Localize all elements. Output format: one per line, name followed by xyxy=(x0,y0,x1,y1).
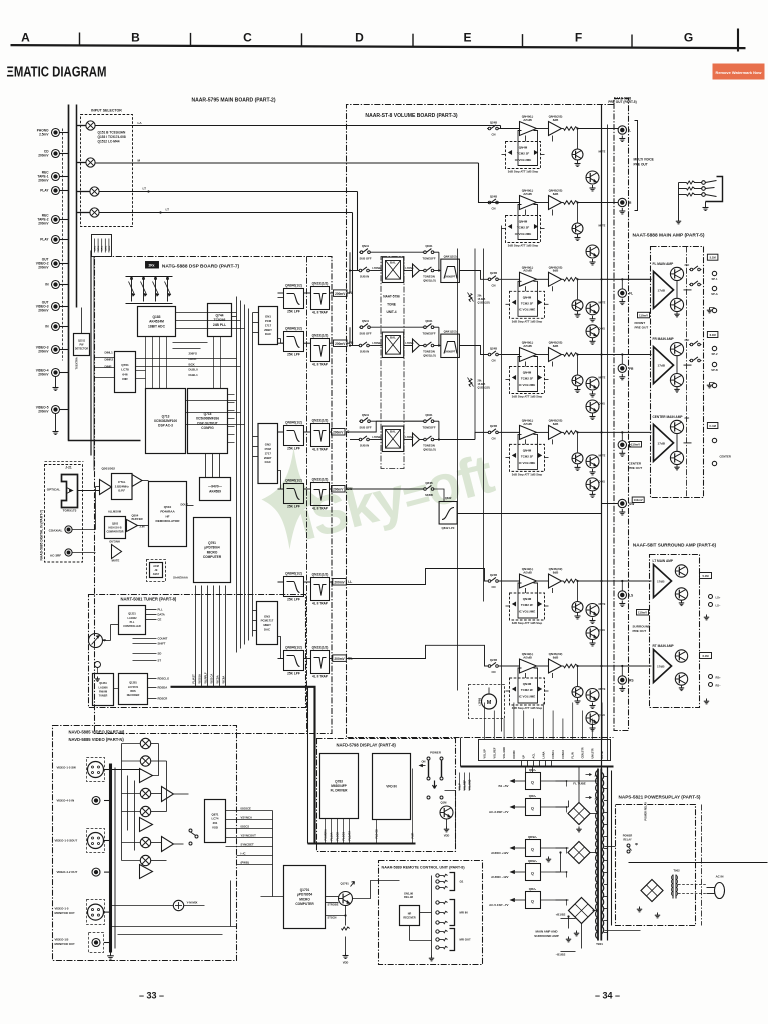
svg-text:Q24B: Q24B xyxy=(490,573,497,577)
svg-text:Q842: Q842 xyxy=(445,496,452,500)
svg-text:RS: RS xyxy=(629,679,634,683)
amp CENTER MAIN AMP output transistor lower xyxy=(670,451,683,464)
volume strip R feedback loop xyxy=(518,205,538,240)
sub out wire xyxy=(457,504,618,514)
svg-text:RELAY: RELAY xyxy=(623,839,632,842)
svg-text:TV.EXTRA: TV.EXTRA xyxy=(76,357,79,369)
svg-text:SP-2: SP-2 xyxy=(711,352,718,356)
tone row 1 sub bypass switch xyxy=(360,251,363,254)
svg-text:VIDEO-1-5 SW: VIDEO-1-5 SW xyxy=(57,766,77,770)
volume board vertical wire C xyxy=(501,226,503,732)
svg-text:VOL.GND: VOL.GND xyxy=(503,747,506,759)
svg-text:4L II TRAP: 4L II TRAP xyxy=(312,448,329,452)
svg-text:CN: CN xyxy=(492,359,496,363)
svg-text:SURROUND AMP: SURROUND AMP xyxy=(534,934,558,938)
volume board outline xyxy=(347,105,614,738)
video switch xyxy=(189,829,192,832)
svg-text:OPTICAL: OPTICAL xyxy=(47,488,61,492)
svg-text:TCM2 2F: TCM2 2F xyxy=(521,603,534,607)
bridge rectifier D903 xyxy=(569,898,595,924)
coupling cap row 2 xyxy=(334,340,348,347)
amp CENTER MAIN AMP speaker relay and terminals xyxy=(712,438,716,442)
svg-text:IC VOLUME: IC VOLUME xyxy=(515,158,532,162)
trap block row 3 xyxy=(311,424,330,447)
svg-text:TUNL: TUNL xyxy=(98,245,100,251)
svg-text:MAIN AMP AND: MAIN AMP AND xyxy=(536,930,559,934)
headphone jack contacts xyxy=(702,181,706,185)
svg-text:LT: LT xyxy=(166,208,170,212)
svg-text:QN41(1/2): QN41(1/2) xyxy=(444,254,457,258)
surround LT MAIN AMP triangle xyxy=(654,565,672,598)
svg-text:F: F xyxy=(575,31,582,45)
svg-text:200mV: 200mV xyxy=(38,409,49,413)
svg-text:CN: CN xyxy=(492,284,496,288)
svg-text:PLAY: PLAY xyxy=(40,238,49,242)
svg-text:3dB Step ATT 1dB Step: 3dB Step ATT 1dB Step xyxy=(512,706,543,710)
svg-text:TC9246: TC9246 xyxy=(214,318,226,322)
svg-text:MUTE: MUTE xyxy=(599,301,606,304)
psu bridge D911 xyxy=(641,880,663,902)
video out lines and labels xyxy=(226,810,273,812)
amp CENTER MAIN AMP transistor ground xyxy=(676,465,678,468)
amp FR MAIN AMP transistor ground xyxy=(676,387,678,390)
video wires horizontal xyxy=(104,769,111,771)
tone to strip jogs xyxy=(460,271,488,280)
LPF block row 1 xyxy=(284,289,304,309)
svg-text:FLD-CS: FLD-CS xyxy=(376,829,379,839)
svg-text:SYNCDET: SYNCDET xyxy=(241,843,254,847)
svg-text:TCM2 2F: TCM2 2F xyxy=(517,226,530,230)
svg-text:TONEON: TONEON xyxy=(423,444,435,448)
svg-text:RT MAIN AMP: RT MAIN AMP xyxy=(653,644,675,648)
tone row 2 sub in switch xyxy=(359,344,362,347)
tone row 3 tone defeat switch xyxy=(424,420,427,423)
svg-text:VIDEO-4-5 IN: VIDEO-4-5 IN xyxy=(57,799,75,803)
front pre out label xyxy=(638,312,650,318)
svg-text:QN840(1/2): QN840(1/2) xyxy=(285,327,302,331)
svg-text:QN231(1/2): QN231(1/2) xyxy=(312,419,329,423)
svg-text:DINR: DINR xyxy=(105,365,112,369)
svg-text:TONEON: TONEON xyxy=(423,275,435,279)
tuner IF IC Q1261 xyxy=(93,674,114,706)
svg-text:QN21(L/2): QN21(L/2) xyxy=(423,354,436,358)
svg-text:Q: Q xyxy=(531,781,534,785)
svg-text:2SC: 2SC xyxy=(685,417,690,420)
dsp adc-dsp wires xyxy=(145,337,147,389)
svg-text:RDSCLG: RDSCLG xyxy=(158,677,170,681)
tone row 1 tone defeat switch xyxy=(424,251,427,254)
svg-text:Q24B: Q24B xyxy=(490,424,497,428)
tone row jog from filter row1 xyxy=(347,252,350,293)
input selector switch 3 xyxy=(90,187,99,196)
svg-text:SUB IN: SUB IN xyxy=(360,444,369,448)
svg-text:6.1M: 6.1M xyxy=(702,654,709,658)
svg-text:200mV: 200mV xyxy=(38,349,49,353)
svg-text:WLRRLF: WLRRLF xyxy=(204,672,208,683)
svg-text:AC-3.0SP +7V: AC-3.0SP +7V xyxy=(489,810,509,814)
svg-text:PCM1717: PCM1717 xyxy=(261,619,274,623)
headphone jack body xyxy=(706,177,723,202)
tone row 3 tone-on switch xyxy=(424,438,427,441)
svg-text:Ω1: Ω1 xyxy=(460,880,464,884)
svg-text:QN41: QN41 xyxy=(425,319,433,323)
svg-text:UNIT-4: UNIT-4 xyxy=(386,310,396,314)
svg-text:Q1511: Q1511 xyxy=(78,339,86,342)
svg-text:IC VOLUME: IC VOLUME xyxy=(519,461,536,465)
volume strip L feedback loop xyxy=(518,131,538,166)
svg-text:DINL1: DINL1 xyxy=(105,351,114,355)
svg-text:Q153 I TC9174-008: Q153 I TC9174-008 xyxy=(98,135,126,139)
input selector box xyxy=(81,115,133,227)
svg-text:POWER: POWER xyxy=(430,751,441,755)
svg-text:200mV: 200mV xyxy=(333,431,344,435)
svg-text:QN41: QN41 xyxy=(362,244,370,248)
svg-text:25K LPF: 25K LPF xyxy=(287,310,300,314)
svg-text:FL DRIVER: FL DRIVER xyxy=(331,789,348,793)
svg-text:DIR: DIR xyxy=(122,377,128,381)
svg-text:SURROUND: SURROUND xyxy=(633,625,652,629)
trap block row 4 xyxy=(311,483,330,506)
video amp triangles xyxy=(162,787,174,802)
svg-text:QR2₂: QR2₂ xyxy=(529,794,537,798)
filter row 5 wires xyxy=(278,581,284,583)
svg-text:AUDIO –12V: AUDIO –12V xyxy=(491,875,508,879)
svg-text:Q503: Q503 xyxy=(112,522,119,525)
svg-text:NAVD-5885 VIDEO (PART-N): NAVD-5885 VIDEO (PART-N) xyxy=(69,737,125,742)
svg-text:RDSCR: RDSCR xyxy=(158,697,168,701)
svg-text:XC56008MF266: XC56008MF266 xyxy=(196,417,219,421)
bridge rectifier D901 xyxy=(568,803,590,825)
svg-text:ASSY: ASSY xyxy=(153,573,160,576)
svg-text:VFD IN: VFD IN xyxy=(386,785,397,789)
svg-text:8dB: 8dB xyxy=(553,570,559,574)
svg-text:QN840(1/2): QN840(1/2) xyxy=(285,421,302,425)
filter row 2 wires xyxy=(278,342,284,344)
svg-text:VIDEO-1/5: VIDEO-1/5 xyxy=(55,938,69,942)
amp FL MAIN AMP triangle xyxy=(654,271,674,308)
svg-text:DLBL0: DLBL0 xyxy=(189,368,199,372)
svg-text:NAAR-5889 REMOTE CONTROL UNIT: NAAR-5889 REMOTE CONTROL UNIT (PART-8) xyxy=(382,866,466,870)
svg-text:8dB: 8dB xyxy=(553,344,559,348)
svg-text:NAAR-ST-8 VOLUME BOARD (PART-: NAAR-ST-8 VOLUME BOARD (PART-3) xyxy=(365,113,457,119)
svg-text:2SC: 2SC xyxy=(685,339,690,342)
LPF block row 5 xyxy=(284,577,304,597)
svg-text:QN4M: QN4M xyxy=(523,371,532,375)
remote jacks xyxy=(450,873,455,891)
pw detector xyxy=(74,334,90,356)
svg-text:PCM: PCM xyxy=(265,319,272,323)
svg-text:256FS: 256FS xyxy=(189,352,198,356)
amp CENTER MAIN AMP fuse box xyxy=(707,423,718,429)
svg-text:PD49RAA: PD49RAA xyxy=(160,510,175,514)
svg-text:UP: UP xyxy=(523,755,526,759)
svg-text:HF: HF xyxy=(165,514,169,518)
svg-text:TUNL: TUNL xyxy=(105,245,107,251)
svg-text:25K LPF: 25K LPF xyxy=(287,353,300,357)
svg-text:25K LPF: 25K LPF xyxy=(287,505,300,509)
amp feed C xyxy=(602,431,652,433)
svg-text:QN840(1/2): QN840(1/2) xyxy=(285,284,302,288)
svg-text:J-21: J-21 xyxy=(65,466,72,470)
svg-text:A/5dB: A/5dB xyxy=(523,118,532,122)
left vertical bus lines xyxy=(68,105,70,441)
svg-text:QN840(1/2): QN840(1/2) xyxy=(285,479,302,483)
svg-text:NART-5081 TUNER (PART-8): NART-5081 TUNER (PART-8) xyxy=(121,597,177,602)
svg-text:2Rx: 2Rx xyxy=(148,264,154,268)
volume to amp vertical bus xyxy=(601,105,603,861)
svg-text:25K LPF: 25K LPF xyxy=(287,598,300,602)
svg-text:BAL: BAL xyxy=(390,430,396,434)
volume board vertical wire B xyxy=(483,249,485,602)
bus from volume to psu xyxy=(521,761,523,767)
ADC Q183 xyxy=(138,307,176,337)
svg-text:DOWN: DOWN xyxy=(513,750,516,758)
amp FL MAIN AMP fuse box xyxy=(707,254,718,260)
svg-text:AK4589: AK4589 xyxy=(209,489,221,493)
svg-text:Q1512 LC-M44: Q1512 LC-M44 xyxy=(98,139,120,143)
svg-text:QN41: QN41 xyxy=(362,319,370,323)
headphone feed resistors xyxy=(687,181,695,184)
remote receiver wires xyxy=(420,912,432,914)
DAC GN2 xyxy=(258,424,278,484)
svg-text:IC VOLUME: IC VOLUME xyxy=(519,694,536,698)
svg-text:AUDIO +12V: AUDIO +12V xyxy=(491,851,508,855)
tone row jog from filter row3 xyxy=(347,421,376,432)
svg-text:WG1CA: WG1CA xyxy=(210,674,214,684)
svg-text:200mV: 200mV xyxy=(334,657,345,661)
display board outline xyxy=(317,739,456,852)
headphone feed wires xyxy=(679,182,687,184)
svg-text:D: D xyxy=(355,31,364,45)
svg-text:TCM2 2F: TCM2 2F xyxy=(517,152,530,156)
svg-text:MUTE: MUTE xyxy=(599,377,606,380)
volume strip C IC volume box xyxy=(510,444,545,471)
svg-text:FLDATA: FLDATA xyxy=(349,831,352,841)
PLL Q744 xyxy=(208,304,232,337)
dac output wires xyxy=(278,297,284,299)
sw pre out label xyxy=(632,497,644,503)
svg-text:4L II TRAP: 4L II TRAP xyxy=(312,311,329,315)
svg-text:FL/AST: FL/AST xyxy=(192,674,196,684)
svg-text:CN: CN xyxy=(492,133,496,137)
filter row 6 wires xyxy=(278,658,284,660)
svg-text:BCK: BCK xyxy=(189,362,196,366)
DAC GN3 xyxy=(257,602,278,645)
svg-text:3dB Step ATT 1dB Step: 3dB Step ATT 1dB Step xyxy=(512,621,543,625)
svg-text:3dB Step ATT 1dB Step: 3dB Step ATT 1dB Step xyxy=(512,319,543,323)
svg-text:X'TAL: X'TAL xyxy=(118,480,126,484)
video svideo jack 1 xyxy=(87,758,105,782)
svg-text:NAPS-5821 POWERSUPLAY (PART-5): NAPS-5821 POWERSUPLAY (PART-5) xyxy=(619,795,701,800)
volume strip FL output resistor xyxy=(564,278,578,282)
svg-text:TCM2 2F: TCM2 2F xyxy=(521,377,534,381)
svg-text:FRONT: FRONT xyxy=(635,321,646,325)
volume strip L IC volume box xyxy=(506,142,541,169)
svg-text:BAL: BAL xyxy=(390,261,396,265)
svg-text:Q791: Q791 xyxy=(208,541,216,545)
volume strip R mute transistors xyxy=(577,203,579,223)
svg-text:M66004FP: M66004FP xyxy=(331,784,347,788)
svg-text:LL: LL xyxy=(348,580,352,584)
RS feed wire xyxy=(347,645,488,666)
tone row 2 balance modulator xyxy=(382,332,403,357)
surround LT MAIN AMP transistor lower xyxy=(675,588,687,600)
volume strip R IC volume box xyxy=(506,216,541,243)
svg-text:C: C xyxy=(243,31,252,45)
Q1761 resistor and ground xyxy=(345,906,347,926)
svg-text:IC VOLUME: IC VOLUME xyxy=(519,308,536,312)
surround LT MAIN AMP terminals xyxy=(709,595,713,599)
svg-text:XC56362MF100: XC56362MF100 xyxy=(154,419,177,423)
pre-out strip outline xyxy=(614,99,629,731)
svg-text:B: B xyxy=(131,31,140,45)
svg-text:DECODER: DECODER xyxy=(127,694,140,697)
svg-text:WCDA: WCDA xyxy=(216,675,220,683)
sub lpf Q842 xyxy=(424,488,427,491)
tone row 3 sub in switch xyxy=(359,438,362,441)
svg-text:200mV: 200mV xyxy=(38,308,49,312)
svg-text:WG51A: WG51A xyxy=(198,674,202,683)
regulator boxes xyxy=(526,773,541,790)
video main bus xyxy=(109,764,112,953)
svg-text:110mV: 110mV xyxy=(638,611,647,615)
video board outline xyxy=(53,726,237,961)
digital wires xyxy=(78,490,100,492)
svg-text:PRE OUT: PRE OUT xyxy=(634,163,648,167)
svg-text:CN: CN xyxy=(492,207,496,211)
svg-text:GN3: GN3 xyxy=(264,614,270,618)
tuner RDS IC Q1281 xyxy=(119,674,148,705)
display small contacts xyxy=(427,796,430,799)
svg-text:QN41: QN41 xyxy=(425,244,433,248)
svg-text:LT MAIN AMP: LT MAIN AMP xyxy=(653,559,674,563)
svg-text:LTONE: LTONE xyxy=(372,342,381,345)
svg-text:3dB Step ATT 1dB Step: 3dB Step ATT 1dB Step xyxy=(512,472,543,476)
volume strip L input switch xyxy=(488,127,491,130)
trap block row 2 xyxy=(311,339,330,362)
tuner front end circle xyxy=(89,634,103,648)
svg-text:Q510: Q510 xyxy=(164,505,172,509)
selector feed stubs xyxy=(77,125,86,127)
svg-text:110mV: 110mV xyxy=(639,313,648,317)
svg-text:MUTE: MUTE xyxy=(599,225,606,228)
svg-text:AC-3RF: AC-3RF xyxy=(50,554,61,558)
video lower wires xyxy=(111,926,237,928)
tone row 3 buffer amp xyxy=(413,433,420,446)
svg-text:QR2₃: QR2₃ xyxy=(529,887,537,891)
amp CENTER MAIN AMP triangle xyxy=(654,424,674,461)
main board outline xyxy=(69,105,141,441)
svg-text:18BIT: 18BIT xyxy=(263,623,271,627)
svg-text:G: G xyxy=(684,31,693,45)
svg-text:YSYNCOUT: YSYNCOUT xyxy=(241,834,257,838)
svg-text:2.5mV: 2.5mV xyxy=(39,132,49,136)
svg-text:LA1832: LA1832 xyxy=(128,617,138,620)
svg-text:MICRO: MICRO xyxy=(299,897,310,901)
trap block row 5 xyxy=(311,578,330,601)
svg-text:TCM2 2F: TCM2 2F xyxy=(521,455,534,459)
svg-text:NAFD-5798 DISPLAY (PART-8): NAFD-5798 DISPLAY (PART-8) xyxy=(337,743,397,748)
display transistor Q1741 xyxy=(440,806,453,819)
fl driver Q783 xyxy=(320,754,359,819)
svg-text:CENTER: CENTER xyxy=(629,462,642,466)
rom 94V0 xyxy=(200,478,231,501)
svg-text:LA1866: LA1866 xyxy=(99,686,109,689)
svg-text:CEN.STR: CEN.STR xyxy=(582,747,585,758)
LPF block row 4 xyxy=(284,484,304,504)
filter row 4 wires xyxy=(278,488,284,490)
svg-text:UNI.STR: UNI.STR xyxy=(591,748,594,758)
svg-text:MUTE: MUTE xyxy=(599,151,606,154)
video routing xyxy=(122,743,141,745)
tone row 2 tone defeat switch xyxy=(424,326,427,329)
display box bottom labels xyxy=(325,819,327,844)
svg-text:B.P.F: B.P.F xyxy=(118,489,125,493)
svg-text:QN41: QN41 xyxy=(425,413,433,417)
svg-text:8dB: 8dB xyxy=(553,192,559,196)
ac3-rf connector xyxy=(65,549,72,556)
svg-text:I–/C: I–/C xyxy=(241,852,246,856)
svg-text:A/5dB: A/5dB xyxy=(523,344,532,348)
svg-text:TUNL: TUNL xyxy=(109,245,111,251)
tone row 2 tone block xyxy=(441,334,460,357)
volume strip C feedback loop xyxy=(518,434,538,469)
svg-text:25K LPF: 25K LPF xyxy=(287,447,300,451)
surround LT MAIN AMP transistor upper xyxy=(675,565,687,577)
svg-text:GN1,98: GN1,98 xyxy=(404,892,414,896)
svg-text:VOL.REF: VOL.REF xyxy=(493,747,496,758)
svg-text:VSYNCA: VSYNCA xyxy=(241,816,252,820)
input jack column xyxy=(52,129,60,137)
amp feed RS xyxy=(602,665,652,667)
svg-text:FM/AM: FM/AM xyxy=(99,690,107,693)
svg-text:FUNC2: FUNC2 xyxy=(562,750,565,759)
svg-text:Q1761: Q1761 xyxy=(341,882,350,886)
tone row 1 tone block xyxy=(441,259,460,282)
svg-text:18BIT ADC: 18BIT ADC xyxy=(148,324,166,328)
dsp q718 stubs xyxy=(228,394,235,396)
svg-text:Q871: Q871 xyxy=(212,812,219,816)
svg-text:8dB: 8dB xyxy=(553,118,559,122)
svg-text:MUTE: MUTE xyxy=(599,688,606,691)
psu B wires xyxy=(568,917,570,929)
svg-text:+B1/B2: +B1/B2 xyxy=(556,913,566,917)
volume strip FR output resistor xyxy=(564,353,578,357)
svg-text:NAAT-5796: NAAT-5796 xyxy=(383,295,400,299)
power transformer T901 xyxy=(597,769,599,941)
svg-text:Q1701: Q1701 xyxy=(300,888,310,892)
dsp board inner boundary xyxy=(306,257,308,734)
svg-text:C.1M: C.1M xyxy=(709,424,716,428)
svg-text:OUT.INH: OUT.INH xyxy=(109,540,120,544)
svg-text:POWERA: POWERA xyxy=(325,829,328,841)
coupling cap row 6 xyxy=(333,655,347,662)
DIR input wires xyxy=(94,357,115,359)
svg-text:110mV: 110mV xyxy=(634,498,643,502)
svg-text:DINR2: DINR2 xyxy=(105,358,114,362)
psu ac plug xyxy=(715,883,725,899)
svg-text:A/5dB: A/5dB xyxy=(523,192,532,196)
svg-text:TONEOFF: TONEOFF xyxy=(422,425,435,429)
svg-text:A/5dB: A/5dB xyxy=(523,422,532,426)
svg-text:A/5dB: A/5dB xyxy=(523,269,532,273)
svg-text:AC-5.1SP –7V: AC-5.1SP –7V xyxy=(489,903,508,907)
svg-text:QN41(1/2): QN41(1/2) xyxy=(444,329,457,333)
volume strip RS output resistor xyxy=(564,664,578,668)
comparator block Q503 xyxy=(105,517,126,539)
svg-text:QN4M: QN4M xyxy=(523,682,532,686)
surround pre out label xyxy=(637,610,649,616)
